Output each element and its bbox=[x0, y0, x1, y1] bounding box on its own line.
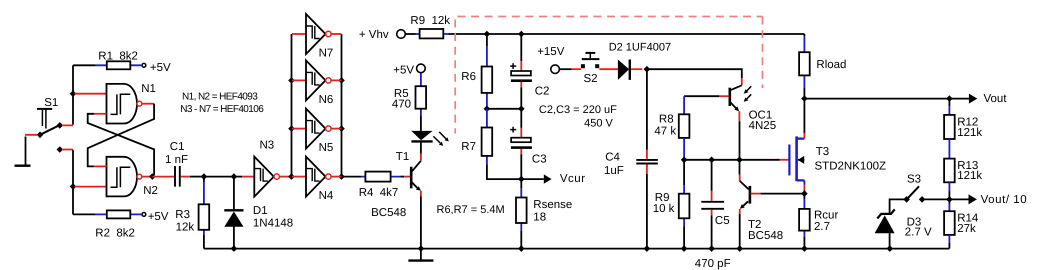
inverter N7 bbox=[292, 14, 342, 59]
resistor R14 bbox=[944, 199, 979, 248]
svg-text:121k: 121k bbox=[957, 170, 982, 182]
power +15V terminal bbox=[537, 46, 565, 73]
node junction D1 bbox=[231, 173, 238, 180]
diode D2 bbox=[609, 41, 671, 80]
capacitor C3 bbox=[510, 109, 546, 179]
net arrow Vout/10 bbox=[949, 194, 1027, 206]
switch S3 bbox=[890, 174, 950, 214]
wire inverter output bus bbox=[341, 34, 343, 177]
power +5V terminal at R5 bbox=[393, 64, 425, 76]
svg-text:D2 1UF4007: D2 1UF4007 bbox=[609, 41, 671, 53]
svg-text:N3 - N7 = HEF40106: N3 - N7 = HEF40106 bbox=[180, 104, 264, 115]
svg-text:R9: R9 bbox=[655, 192, 670, 204]
wire C1 node to D1 node bbox=[204, 176, 234, 178]
svg-text:27k: 27k bbox=[957, 223, 976, 235]
svg-text:12k: 12k bbox=[176, 222, 195, 234]
svg-text:S2: S2 bbox=[584, 73, 598, 85]
capacitor C4 bbox=[604, 69, 658, 248]
led optocoupler emitter diode bbox=[411, 115, 432, 153]
node junction T3 source T2 base bbox=[801, 190, 808, 197]
wire top rail to Rload bbox=[449, 33, 805, 35]
svg-text:1 nF: 1 nF bbox=[165, 154, 188, 166]
svg-text:N4: N4 bbox=[319, 190, 334, 202]
node rail junction R9 bbox=[681, 245, 688, 252]
wire bus S1 bottom contact to R2 bbox=[72, 150, 74, 214]
svg-text:18: 18 bbox=[533, 212, 546, 224]
svg-text:Vout/ 10: Vout/ 10 bbox=[981, 194, 1028, 206]
note R6 R7 values bbox=[437, 204, 505, 216]
resistor R12 bbox=[944, 99, 982, 139]
power +Vhv terminal bbox=[359, 29, 405, 41]
svg-text:S3: S3 bbox=[907, 174, 921, 186]
wire pin N2 input B bbox=[75, 186, 107, 188]
optocoupler OC1 4N25 phototransistor bbox=[719, 85, 776, 160]
node junction Vout div 10 bbox=[946, 196, 953, 203]
node junction C2 C3 bbox=[518, 106, 525, 113]
wire bus R1 to S1 top contact bbox=[72, 65, 74, 124]
svg-text:2.7 V: 2.7 V bbox=[905, 227, 932, 239]
switch S2 pushbutton bbox=[559, 53, 618, 85]
note HEF40106 bbox=[180, 104, 264, 115]
switch S1 bbox=[25, 97, 73, 153]
svg-text:C2: C2 bbox=[535, 85, 550, 97]
transistor T2 BC548 bbox=[740, 160, 805, 249]
node junction C5 bbox=[708, 157, 715, 164]
node junction N3 output bbox=[288, 173, 295, 180]
svg-text:N1: N1 bbox=[141, 83, 156, 95]
resistor Rsense bbox=[516, 179, 572, 249]
resistor Rload bbox=[799, 34, 846, 99]
node junction Rload T3 drain bbox=[801, 95, 808, 102]
resistor R13 bbox=[944, 139, 982, 199]
node output bus junction N4 bbox=[338, 173, 345, 180]
capacitor C5 bbox=[695, 160, 731, 270]
node junction R6 R7 bbox=[484, 106, 491, 113]
ground at S1 bbox=[15, 137, 31, 166]
svg-text:R8: R8 bbox=[659, 114, 674, 126]
svg-text:R4 4k7: R4 4k7 bbox=[359, 187, 399, 199]
svg-text:BC548: BC548 bbox=[371, 207, 406, 219]
boundary dashed isolation box bbox=[455, 17, 762, 134]
transistor T1 BC548 bbox=[371, 151, 421, 249]
svg-text:N6: N6 bbox=[319, 94, 334, 106]
node junction OC1 emitter T2 collector bbox=[736, 157, 743, 164]
wire OC1 base to R8 bbox=[684, 95, 719, 97]
power +5V terminal at R1 bbox=[142, 62, 171, 74]
note HEF4093 bbox=[182, 91, 258, 102]
wire R6 node to C2 node bbox=[487, 108, 521, 110]
svg-text:N1, N2 = HEF4093: N1, N2 = HEF4093 bbox=[182, 91, 258, 102]
svg-text:Vout: Vout bbox=[984, 93, 1008, 105]
svg-text:R9 12k: R9 12k bbox=[410, 15, 450, 27]
node rail junction Rsense bbox=[518, 245, 525, 252]
svg-text:T3: T3 bbox=[816, 146, 829, 158]
inverter N4 bbox=[292, 157, 342, 202]
svg-text:1N4148: 1N4148 bbox=[253, 217, 293, 229]
node rail junction C5 bbox=[708, 245, 715, 252]
svg-text:C5: C5 bbox=[715, 215, 730, 227]
inverter N3 bbox=[234, 139, 292, 196]
resistor Rcur bbox=[799, 194, 838, 249]
capacitor C2 bbox=[510, 34, 549, 109]
resistor R9 10k bbox=[653, 160, 690, 249]
resistor R3 bbox=[175, 177, 209, 249]
wire OC1 collector supply bbox=[647, 69, 742, 85]
resistor R7 bbox=[461, 109, 521, 179]
svg-text:+5V: +5V bbox=[148, 211, 169, 223]
zener diode D3 bbox=[875, 209, 932, 248]
nand gate N1 bbox=[107, 83, 156, 124]
svg-text:R7: R7 bbox=[461, 141, 476, 153]
svg-text:STD2NK100Z: STD2NK100Z bbox=[815, 160, 887, 172]
node rail junction D1 bbox=[231, 245, 238, 252]
svg-text:+15V: +15V bbox=[537, 46, 565, 58]
node top rail junction R6 bbox=[484, 31, 491, 38]
resistor R1 bbox=[73, 50, 141, 69]
wire N2 output to N1 input cross-coupling bbox=[88, 114, 154, 177]
svg-text:S1: S1 bbox=[44, 97, 58, 109]
svg-text:R2 8k2: R2 8k2 bbox=[95, 227, 135, 239]
wire gate drive row bbox=[684, 159, 780, 161]
node input bus junction N5 bbox=[288, 125, 295, 132]
svg-text:450 V: 450 V bbox=[584, 117, 613, 129]
resistor R6 bbox=[461, 34, 492, 109]
svg-text:1uF: 1uF bbox=[604, 165, 624, 177]
svg-text:Rload: Rload bbox=[816, 59, 846, 71]
resistor R8 bbox=[654, 96, 689, 160]
node junction D2 output bbox=[644, 66, 651, 73]
note C2 C3 values bbox=[539, 104, 617, 129]
node rail junction T2 emitter bbox=[736, 245, 743, 252]
node junction Vout bbox=[946, 95, 953, 102]
node output bus junction N5 bbox=[338, 125, 345, 132]
power +5V terminal at R2 bbox=[142, 211, 169, 223]
svg-text:Rsense: Rsense bbox=[533, 199, 572, 211]
mosfet T3 STD2NK100Z bbox=[780, 99, 886, 194]
svg-text:4N25: 4N25 bbox=[749, 120, 777, 132]
inverter N6 bbox=[292, 60, 342, 105]
svg-text:N3: N3 bbox=[260, 139, 275, 151]
node N2 output junction bbox=[149, 173, 156, 180]
node rail junction Rcur bbox=[801, 245, 808, 252]
wire bottom ground rail bbox=[204, 248, 950, 250]
resistor R5 bbox=[392, 73, 426, 115]
svg-text:+ Vhv: + Vhv bbox=[359, 29, 389, 41]
svg-text:R6,R7 = 5.4M: R6,R7 = 5.4M bbox=[437, 204, 505, 216]
resistor R9 12k bbox=[405, 15, 450, 39]
svg-text:R3: R3 bbox=[175, 209, 190, 221]
svg-text:C3: C3 bbox=[532, 154, 547, 166]
optocoupler light arrows bbox=[744, 86, 752, 102]
ground at T1 emitter bbox=[408, 249, 433, 261]
node rail junction D3 bbox=[887, 245, 894, 252]
svg-text:Rcur: Rcur bbox=[814, 210, 838, 222]
node junction R8 R9 bbox=[681, 157, 688, 164]
svg-text:121k: 121k bbox=[957, 127, 982, 139]
node junction N2 bottom input bbox=[70, 183, 77, 190]
svg-text:470: 470 bbox=[392, 98, 411, 110]
node rail junction C4 bbox=[644, 245, 651, 252]
svg-text:2.7: 2.7 bbox=[814, 221, 830, 233]
svg-text:47 k: 47 k bbox=[654, 126, 676, 138]
led light arrows bbox=[433, 132, 448, 146]
net arrow Vout bbox=[949, 93, 1007, 105]
svg-text:BC548: BC548 bbox=[748, 230, 783, 242]
node input bus junction N6 bbox=[288, 77, 295, 84]
node rail junction T1 ground bbox=[418, 245, 425, 252]
svg-text:Vcur: Vcur bbox=[560, 173, 586, 185]
node junction Vcur bbox=[518, 176, 525, 183]
svg-text:470 pF: 470 pF bbox=[695, 258, 731, 270]
wire inverter input bus bbox=[291, 34, 293, 177]
node junction N1 top input bbox=[70, 90, 77, 97]
svg-text:+5V: +5V bbox=[393, 64, 414, 76]
diode D1 bbox=[224, 177, 293, 249]
svg-text:N5: N5 bbox=[319, 142, 334, 154]
svg-text:10 k: 10 k bbox=[653, 203, 675, 215]
svg-text:R6: R6 bbox=[461, 71, 476, 83]
svg-text:R1 8k2: R1 8k2 bbox=[98, 50, 138, 62]
resistor R4 bbox=[342, 172, 405, 199]
resistor R2 bbox=[73, 210, 141, 239]
wire pin N1 input A bbox=[75, 93, 107, 95]
nand gate N2 bbox=[107, 157, 158, 197]
node top rail junction C2 bbox=[518, 31, 525, 38]
node junction C1 / R3 bbox=[201, 173, 208, 180]
svg-text:C4: C4 bbox=[605, 152, 620, 164]
svg-text:N7: N7 bbox=[319, 47, 334, 59]
inverter N5 bbox=[292, 109, 342, 154]
svg-text:T1: T1 bbox=[396, 151, 409, 163]
svg-text:D1: D1 bbox=[253, 205, 268, 217]
wire Rload node to Vout node bbox=[804, 98, 949, 100]
node output bus junction N6 bbox=[338, 77, 345, 84]
svg-text:+5V: +5V bbox=[150, 62, 171, 74]
capacitor C1 bbox=[152, 141, 204, 186]
wire N1 output to N2 input cross-coupling bbox=[88, 104, 154, 167]
svg-text:C1: C1 bbox=[170, 141, 185, 153]
svg-text:C2,C3 = 220 uF: C2,C3 = 220 uF bbox=[539, 104, 617, 116]
svg-text:N2: N2 bbox=[143, 185, 158, 197]
net arrow Vcur bbox=[521, 173, 585, 185]
